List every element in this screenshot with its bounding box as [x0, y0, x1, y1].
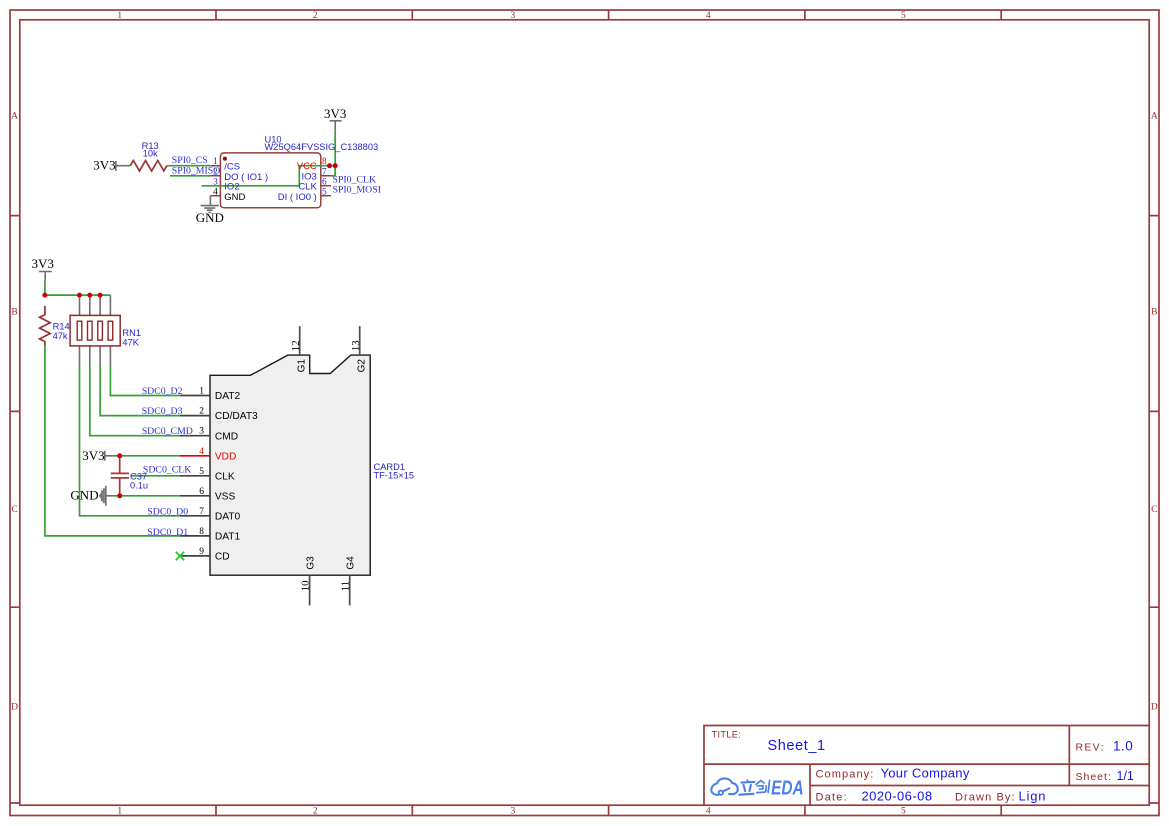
svg-text:13: 13	[350, 340, 362, 351]
svg-text:2: 2	[313, 806, 318, 816]
svg-text:A: A	[11, 112, 18, 122]
svg-text:3V3: 3V3	[93, 157, 115, 172]
svg-text:10: 10	[300, 581, 312, 592]
svg-text:VDD: VDD	[215, 451, 237, 462]
svg-text:G2: G2	[356, 359, 367, 373]
svg-text:2: 2	[199, 407, 204, 417]
svg-text:4: 4	[706, 806, 711, 816]
svg-text:1.0: 1.0	[1113, 739, 1133, 754]
svg-text:3V3: 3V3	[82, 448, 104, 463]
svg-text:SDC0_D0: SDC0_D0	[147, 507, 188, 518]
svg-text:5: 5	[199, 467, 204, 477]
svg-text:Sheet:: Sheet:	[1076, 771, 1112, 783]
svg-text:5: 5	[901, 11, 906, 21]
svg-text:Your Company: Your Company	[881, 766, 970, 781]
svg-text:DAT0: DAT0	[215, 511, 241, 522]
svg-text:B: B	[1151, 308, 1157, 318]
svg-text:SDC0_D3: SDC0_D3	[142, 406, 183, 417]
svg-text:47K: 47K	[122, 337, 139, 347]
svg-text:5: 5	[322, 187, 327, 197]
svg-text:SDC0_D2: SDC0_D2	[142, 386, 183, 397]
svg-text:DAT1: DAT1	[215, 532, 241, 543]
svg-text:1/1: 1/1	[1117, 769, 1134, 783]
svg-text:C: C	[1151, 505, 1157, 515]
svg-text:SDC0_CLK: SDC0_CLK	[143, 465, 191, 476]
svg-text:DI ( IO0 ): DI ( IO0 )	[278, 192, 317, 203]
svg-text:GND: GND	[70, 488, 98, 503]
svg-text:Drawn By:: Drawn By:	[955, 792, 1016, 804]
svg-text:VSS: VSS	[215, 491, 236, 502]
svg-text:3V3: 3V3	[324, 106, 346, 121]
svg-text:4: 4	[213, 187, 218, 197]
svg-text:Date:: Date:	[816, 792, 848, 804]
svg-text:W25Q64FVSSIG_C138803: W25Q64FVSSIG_C138803	[265, 142, 379, 152]
svg-text:SPI0_MISO: SPI0_MISO	[172, 165, 220, 176]
svg-text:G3: G3	[305, 556, 316, 570]
svg-text:47k: 47k	[53, 331, 68, 341]
svg-text:11: 11	[340, 581, 352, 591]
svg-text:REV:: REV:	[1076, 742, 1105, 754]
svg-text:B: B	[11, 308, 17, 318]
svg-text:3V3: 3V3	[32, 256, 54, 271]
svg-text:DAT2: DAT2	[215, 391, 241, 402]
svg-text:CMD: CMD	[215, 431, 238, 442]
svg-text:10k: 10k	[143, 149, 158, 159]
svg-text:12: 12	[290, 340, 302, 351]
svg-text:8: 8	[199, 527, 204, 537]
svg-text:SDC0_CMD: SDC0_CMD	[142, 426, 193, 437]
svg-text:CLK: CLK	[215, 472, 235, 483]
svg-text:6: 6	[322, 177, 327, 187]
svg-text:9: 9	[199, 547, 204, 557]
svg-text:SPI0_CS: SPI0_CS	[172, 155, 208, 166]
svg-text:TITLE:: TITLE:	[712, 729, 742, 739]
svg-text:CD: CD	[215, 552, 230, 563]
svg-text:C: C	[11, 505, 17, 515]
svg-text:2020-06-08: 2020-06-08	[862, 789, 933, 804]
svg-text:0.1u: 0.1u	[130, 481, 148, 491]
svg-text:3: 3	[511, 806, 516, 816]
svg-text:SDC0_D1: SDC0_D1	[147, 527, 188, 538]
svg-text:5: 5	[901, 806, 906, 816]
svg-text:D: D	[1151, 703, 1158, 713]
svg-text:1: 1	[117, 11, 122, 21]
svg-text:D: D	[11, 703, 18, 713]
svg-text:Company:: Company:	[816, 769, 875, 781]
svg-text:4: 4	[706, 11, 711, 21]
svg-text:3: 3	[199, 427, 204, 437]
svg-text:Sheet_1: Sheet_1	[768, 738, 826, 754]
svg-text:2: 2	[313, 11, 318, 21]
svg-text:6: 6	[199, 487, 204, 497]
svg-text:Lign: Lign	[1019, 789, 1047, 804]
svg-text:4: 4	[199, 447, 204, 457]
svg-text:1: 1	[117, 806, 122, 816]
svg-text:TF-15×15: TF-15×15	[374, 471, 415, 481]
svg-text:SPI0_MOSI: SPI0_MOSI	[333, 185, 381, 196]
svg-text:3: 3	[511, 11, 516, 21]
svg-text:7: 7	[199, 507, 204, 517]
svg-text:1: 1	[199, 387, 204, 397]
svg-text:7: 7	[322, 167, 327, 177]
svg-text:GND: GND	[224, 192, 245, 203]
svg-text:8: 8	[322, 157, 327, 167]
svg-text:G4: G4	[345, 556, 356, 570]
svg-text:CD/DAT3: CD/DAT3	[215, 411, 258, 422]
svg-text:G1: G1	[296, 359, 307, 373]
svg-text:EDA: EDA	[771, 777, 803, 799]
svg-text:A: A	[1151, 112, 1158, 122]
svg-text:GND: GND	[196, 210, 224, 225]
svg-text:3: 3	[213, 177, 218, 187]
